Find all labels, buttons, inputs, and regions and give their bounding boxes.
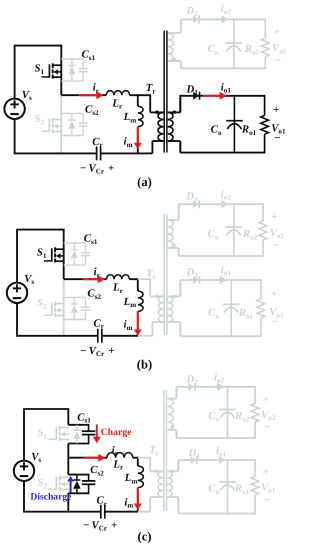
wire left vertical lower (c) — [23, 481, 25, 512]
wire bottom rail left of Cr (b) — [16, 335, 97, 337]
wire bottom rail left of Cr (c) — [23, 511, 100, 513]
wire secondary left lower vertical — [177, 497, 179, 514]
capacitor Co branch — [227, 387, 229, 438]
arrow current io2 — [215, 18, 224, 20]
resistor Ro1 — [264, 96, 266, 116]
wire secondary bottom rail — [179, 255, 264, 257]
wire right vertical upper (c) — [67, 409, 69, 425]
wire node to Lr (b) — [64, 278, 107, 280]
wire bottom rail left of Cr (a) — [14, 152, 96, 154]
svg-text:Charge: Charge — [101, 427, 133, 438]
transformer primary dot greyed (c) — [155, 470, 158, 473]
resistor Ro2 — [254, 387, 256, 404]
wire S-branch vertical upper (b) — [63, 230, 65, 280]
inductor Lm (c) — [138, 466, 144, 488]
wire Lm to bottom rail (a) — [137, 127, 139, 154]
wire secondary left lower vertical — [178, 248, 180, 256]
arrow current io1 — [213, 279, 222, 281]
transistor S1 greyed (c) — [49, 438, 57, 440]
arrow magnetizing current im (b) — [137, 311, 139, 331]
svg-text:−: − — [264, 494, 270, 506]
svg-text:−: − — [264, 421, 270, 433]
wire secondary left lower vertical — [179, 141, 181, 153]
transistor S2 greyed (b) — [44, 314, 52, 316]
wire lower winding to rails greyed (b) — [168, 295, 181, 297]
wire secondary top rail — [179, 203, 264, 205]
transformer core greyed (b) — [163, 214, 165, 335]
arrow current io1 — [212, 459, 221, 461]
wire secondary left vertical — [180, 19, 182, 33]
transformer lower secondary dot greyed (c) — [171, 470, 174, 473]
wire Lm to bottom rail (b) — [137, 311, 139, 335]
wire top rail (a) — [15, 45, 63, 47]
capacitor Co branch — [233, 204, 235, 256]
resistor Ro1 — [254, 460, 256, 477]
wire node row (c) — [68, 457, 107, 459]
transformer lower secondary dot (a) — [173, 111, 176, 114]
body diode S2 (c) — [76, 475, 78, 480]
wire node to transformer primary greyed (b) — [138, 278, 151, 280]
wire left vertical lower (b) — [16, 303, 18, 336]
transformer upper secondary dot greyed (c) — [171, 425, 174, 428]
transformer upper secondary winding greyed (b) — [168, 220, 173, 248]
arrow current io2 — [210, 386, 219, 388]
transistor S2 greyed (c) — [49, 488, 57, 490]
wire node to transformer primary greyed (c) — [138, 457, 151, 459]
inductor Lr (b) — [107, 275, 130, 279]
wire secondary bottom rail — [176, 437, 255, 439]
wire left vertical upper (b) — [16, 229, 18, 283]
wire secondary left lower vertical — [179, 322, 181, 336]
wire bottom rail right of Cr (c) — [105, 511, 138, 513]
wire secondary bottom rail — [180, 335, 261, 337]
wire Lm to bottom rail (c) — [137, 488, 139, 512]
capacitor Co branch — [230, 280, 232, 336]
wire transformer primary bottom (a) — [152, 140, 163, 142]
wire S-branch vertical lower greyed (a) — [60, 95, 62, 153]
arrow current io1 — [203, 95, 221, 97]
svg-text:+: + — [271, 211, 277, 223]
wire left vertical upper (c) — [23, 408, 25, 460]
transformer core (a) — [163, 31, 165, 153]
wire secondary left lower vertical — [175, 430, 177, 438]
wire Lr to corner (b) — [129, 278, 138, 280]
svg-text:+: + — [108, 162, 114, 174]
wire S-branch vertical upper (a) — [60, 46, 62, 96]
transformer primary winding greyed (b) — [158, 296, 163, 322]
diode D2 — [189, 383, 195, 391]
transformer primary dot (a) — [155, 111, 158, 114]
arrow charge (c) — [96, 425, 98, 439]
svg-text:(a): (a) — [137, 175, 152, 189]
wire left vertical upper (a) — [14, 45, 16, 99]
wire S-branch vertical lower greyed (b) — [63, 279, 65, 336]
wire lower winding to rails (a) — [168, 111, 181, 113]
svg-text:+: + — [263, 466, 269, 478]
wire secondary left lower vertical — [180, 61, 182, 68]
arrow magnetizing current im (c) — [137, 488, 139, 505]
wire transformer primary bottom greyed (b) — [152, 321, 163, 323]
wire Cs2 loop bottom (c) — [68, 492, 89, 494]
transistor S1 (a) — [42, 76, 50, 78]
wire secondary left vertical — [179, 280, 181, 296]
wire upper winding to rails greyed (a) — [168, 32, 181, 34]
svg-text:−: − — [272, 316, 278, 328]
transformer upper secondary dot greyed (a) — [173, 58, 176, 61]
transformer upper secondary winding greyed (c) — [167, 399, 173, 430]
wire secondary left vertical — [175, 387, 177, 399]
wire transformer primary bottom greyed (c) — [150, 496, 163, 498]
resonant capacitor Cr (c) — [100, 505, 102, 519]
wire corner down to Lm (c) — [137, 457, 139, 466]
inductor Lm (b) — [138, 291, 143, 311]
svg-text:−: − — [80, 162, 86, 174]
svg-text:−: − — [273, 239, 279, 251]
arrow magnetizing current im (a) — [137, 127, 139, 145]
wire corner down to Lm (b) — [137, 278, 139, 291]
transistor S1 (b) — [44, 260, 52, 262]
wire secondary bottom rail — [181, 67, 266, 69]
capacitor Co branch — [227, 460, 229, 514]
wire secondary left vertical — [179, 96, 181, 113]
svg-text:−: − — [83, 519, 89, 531]
voltage source Vs (a) — [4, 99, 24, 119]
svg-text:+: + — [111, 519, 117, 531]
capacitor Cs1 (c) — [88, 425, 90, 431]
wire secondary top rail — [178, 459, 256, 461]
wire Cs2 loop top (c) — [68, 474, 89, 476]
arrow current io2 — [215, 203, 224, 205]
wire lower winding to rails greyed (c) — [167, 470, 178, 472]
svg-text:(c): (c) — [138, 529, 152, 543]
wire secondary top rail — [181, 18, 266, 20]
wire top rail (b) — [17, 229, 65, 231]
transformer upper secondary winding greyed (a) — [168, 33, 173, 61]
inductor Lr (a) — [106, 91, 129, 96]
transformer lower secondary winding (a) — [168, 112, 173, 141]
wire corner down to Lm (a) — [137, 94, 139, 106]
transformer core greyed (c) — [163, 390, 165, 511]
arrow resonant current ir (b) — [83, 278, 99, 280]
capacitor Co branch — [233, 19, 235, 68]
arrow resonant current ir (c) — [84, 457, 100, 459]
wire left vertical lower (a) — [14, 119, 16, 153]
voltage source Vs (c) — [14, 461, 34, 481]
wire upper winding to rails greyed (b) — [168, 219, 179, 221]
wire upper winding to rails greyed (c) — [167, 398, 176, 400]
wire node to Lr (a) — [61, 94, 106, 96]
inductor Lm (a) — [138, 106, 143, 126]
diode D1 — [191, 456, 197, 464]
svg-text:−: − — [80, 345, 86, 357]
wire secondary bottom rail — [178, 513, 256, 515]
arrow discharge (c) — [70, 480, 72, 493]
resistor Ro2 — [262, 204, 264, 221]
svg-text:−: − — [274, 132, 280, 144]
transformer lower secondary winding greyed (c) — [167, 471, 172, 497]
resonant capacitor Cr (a) — [96, 147, 98, 161]
svg-text:+: + — [271, 288, 277, 300]
svg-text:+: + — [274, 26, 280, 38]
resonant capacitor Cr (b) — [97, 329, 99, 343]
wire secondary top rail — [180, 279, 261, 281]
arrow resonant current ir (a) — [79, 94, 98, 96]
wire Cs1 loop bottom (c) — [68, 443, 89, 445]
svg-text:+: + — [108, 345, 114, 357]
snubber network Cs2 greyed (b) — [64, 296, 86, 298]
diode D1 — [193, 276, 199, 284]
wire bottom rail right of Cr (a) — [101, 152, 152, 154]
transformer primary winding greyed (c) — [158, 471, 163, 497]
transistor S2 greyed (a) — [42, 130, 50, 132]
resistor Ro1 — [260, 280, 262, 299]
snubber network Cs1 body diode and capacitor (a) — [61, 58, 83, 60]
svg-text:+: + — [273, 104, 279, 116]
capacitor Co branch — [233, 96, 235, 153]
svg-text:+: + — [263, 393, 269, 405]
transformer primary dot greyed (b) — [155, 295, 158, 298]
wire secondary left vertical — [178, 204, 180, 220]
wire bottom rail right of Cr (b) — [102, 335, 152, 337]
inductor Lr (c) — [107, 453, 133, 458]
diode D1 — [193, 92, 199, 100]
wire mid vertical to bottom rail (c) — [67, 493, 69, 511]
transformer lower secondary dot greyed (b) — [173, 295, 176, 298]
wire mid vertical to node (c) — [67, 444, 69, 475]
snubber network Cs1 greyed (b) — [64, 242, 86, 244]
voltage source Vs (b) — [7, 283, 27, 303]
wire secondary bottom rail — [180, 152, 265, 154]
wire Lr to corner (c) — [133, 457, 139, 459]
transformer upper secondary dot greyed (b) — [172, 244, 175, 247]
wire secondary top rail — [180, 95, 265, 97]
diode D2 — [193, 200, 199, 208]
transformer lower secondary winding greyed (b) — [168, 296, 173, 322]
svg-text:−: − — [275, 54, 281, 66]
svg-text:(b): (b) — [137, 358, 152, 372]
wire Lr to corner (a) — [130, 94, 139, 96]
svg-text:Discharge: Discharge — [30, 492, 72, 503]
diode D2 — [193, 15, 199, 23]
snubber network Cs2 greyed (a) — [61, 112, 83, 114]
capacitor Cs2 (c) — [88, 475, 90, 481]
resistor Ro2 — [264, 19, 266, 38]
wire secondary left vertical — [177, 460, 179, 471]
wire top rail (c) — [24, 408, 69, 410]
wire Cs1 loop top (c) — [68, 424, 89, 426]
body diode S1 greyed (c) — [76, 425, 78, 430]
transformer primary winding (a) — [158, 112, 163, 141]
wire node to transformer primary (a) — [138, 94, 151, 96]
wire secondary top rail — [176, 386, 255, 388]
